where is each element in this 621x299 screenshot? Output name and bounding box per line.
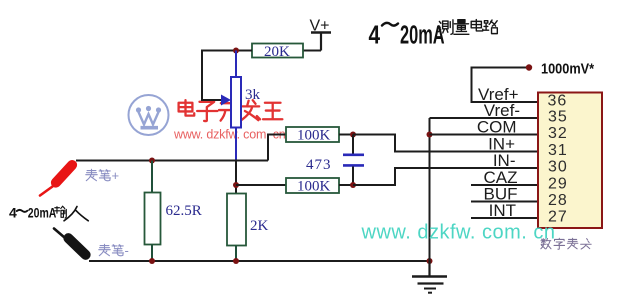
wire corner up to top 100K <box>268 135 286 161</box>
wire 100K lower right lead <box>339 184 353 186</box>
svg-text:31: 31 <box>548 142 568 159</box>
wire node B to IN- step <box>353 168 538 185</box>
potentiometer RP 3k bottom lead <box>235 128 237 161</box>
resistor 2K bottom lead <box>235 246 237 262</box>
node 1000mV <box>526 64 532 70</box>
probe red 表笔+ <box>40 158 79 196</box>
svg-text:28: 28 <box>548 192 568 209</box>
label 4~20mA input <box>9 205 56 221</box>
capacitor C 473 plates <box>343 155 364 166</box>
node junction A <box>350 132 356 138</box>
label 表笔- <box>99 244 124 256</box>
potentiometer RP 3k wiper arrow <box>221 95 231 106</box>
wire 20K right lead to V+ <box>303 50 321 52</box>
wire center column below rail <box>235 161 237 194</box>
wire BUF stub <box>471 201 538 203</box>
resistor 20K <box>252 44 303 58</box>
node junction IN- net <box>233 182 239 188</box>
svg-text:+: + <box>112 168 120 183</box>
power V+ symbol <box>311 33 331 51</box>
resistor 62.5R top lead <box>151 161 153 193</box>
node junction 62.5R bottom <box>149 258 155 264</box>
svg-text:1000mV*: 1000mV* <box>541 59 595 76</box>
title 4~20mA <box>369 19 445 49</box>
capacitor C 473 top lead <box>352 135 354 154</box>
label 数字表头 <box>541 238 591 249</box>
svg-text:35: 35 <box>548 109 568 126</box>
node junction 2K bottom <box>233 258 239 264</box>
svg-text:29: 29 <box>548 176 568 193</box>
ground symbol <box>412 261 447 293</box>
node junction 62.5R top <box>149 158 155 164</box>
svg-text:4: 4 <box>369 20 381 49</box>
potentiometer RP 3k body <box>231 77 241 128</box>
title 测量电路 <box>439 20 498 35</box>
resistor 62.5R body <box>145 193 161 245</box>
svg-text:30: 30 <box>548 159 568 176</box>
wire bottom rail <box>89 260 430 262</box>
wire 100K upper right lead <box>339 134 353 136</box>
wire CAZ stub <box>471 184 538 186</box>
svg-text:473: 473 <box>306 157 332 173</box>
svg-text:100K: 100K <box>297 179 331 195</box>
wire 20K left lead <box>236 50 252 52</box>
svg-text:20K: 20K <box>264 44 290 60</box>
wire Vref+ line to 1000mV point <box>472 68 539 103</box>
probe black 表笔- <box>54 229 93 262</box>
svg-text:www. dzkfw. com. cn: www. dzkfw. com. cn <box>361 222 556 244</box>
node junction top <box>233 48 239 54</box>
svg-text:20mA: 20mA <box>28 205 57 221</box>
resistor 62.5R bottom lead <box>151 245 153 262</box>
svg-text:2K: 2K <box>250 218 269 234</box>
svg-text:32: 32 <box>548 125 568 142</box>
wire COM line <box>430 134 539 136</box>
svg-text:V+: V+ <box>310 18 330 35</box>
svg-text:36: 36 <box>548 93 568 110</box>
resistor 100K lower body <box>286 178 339 193</box>
wire pot-wiper feedback branch <box>202 51 236 101</box>
svg-text:INT: INT <box>489 201 516 220</box>
watermark text 电子开发王 <box>179 100 283 121</box>
resistor 100K upper body <box>286 127 339 142</box>
IC U1 digital meter head body <box>538 93 602 229</box>
potentiometer RP 3k top lead <box>235 51 237 78</box>
svg-text:-: - <box>125 243 129 258</box>
svg-text:100K: 100K <box>297 128 331 144</box>
label 表笔+ <box>86 169 111 181</box>
wire bottom 100K left lead <box>236 184 286 186</box>
wire vertical ground bus <box>429 118 431 261</box>
wire top rail from probe+ <box>76 160 268 162</box>
capacitor C 473 bottom lead <box>352 167 354 186</box>
resistor 2K body <box>227 194 246 246</box>
node junction B <box>350 182 356 188</box>
svg-text:20mA: 20mA <box>400 19 445 49</box>
node junction COM <box>427 132 433 138</box>
svg-text:3k: 3k <box>245 87 261 103</box>
watermark logo circled W <box>129 95 169 135</box>
wire node A to IN+ step <box>353 135 538 152</box>
node junction ground <box>427 258 433 264</box>
svg-text:4: 4 <box>9 205 17 221</box>
wire INT stub <box>471 217 538 219</box>
svg-text:62.5R: 62.5R <box>166 203 202 219</box>
wire Vref- line <box>430 117 539 119</box>
